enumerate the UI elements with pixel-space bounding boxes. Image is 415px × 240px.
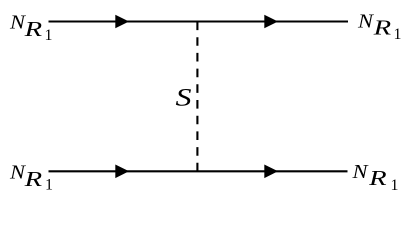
svg-text:S: S bbox=[176, 85, 193, 112]
svg-text:1: 1 bbox=[391, 177, 399, 194]
svg-text:1: 1 bbox=[394, 26, 402, 43]
wire: top fermion line N_R1 bbox=[49, 20, 349, 22]
svg-text:R: R bbox=[368, 166, 387, 190]
scalar propagator S: vertical dashed line bbox=[196, 22, 198, 172]
arrow: top line right segment bbox=[264, 15, 278, 29]
arrow: bottom line right segment bbox=[264, 165, 278, 179]
wire: bottom fermion line N_R1 bbox=[49, 170, 348, 172]
svg-text:R: R bbox=[23, 17, 42, 41]
svg-text:1: 1 bbox=[45, 176, 53, 193]
arrow: top line left segment bbox=[115, 15, 129, 29]
arrow: bottom line left segment bbox=[115, 165, 129, 179]
svg-text:N: N bbox=[357, 10, 375, 32]
svg-text:N: N bbox=[351, 161, 369, 183]
svg-text:R: R bbox=[372, 15, 391, 39]
svg-text:1: 1 bbox=[45, 27, 53, 44]
svg-text:R: R bbox=[23, 167, 42, 191]
